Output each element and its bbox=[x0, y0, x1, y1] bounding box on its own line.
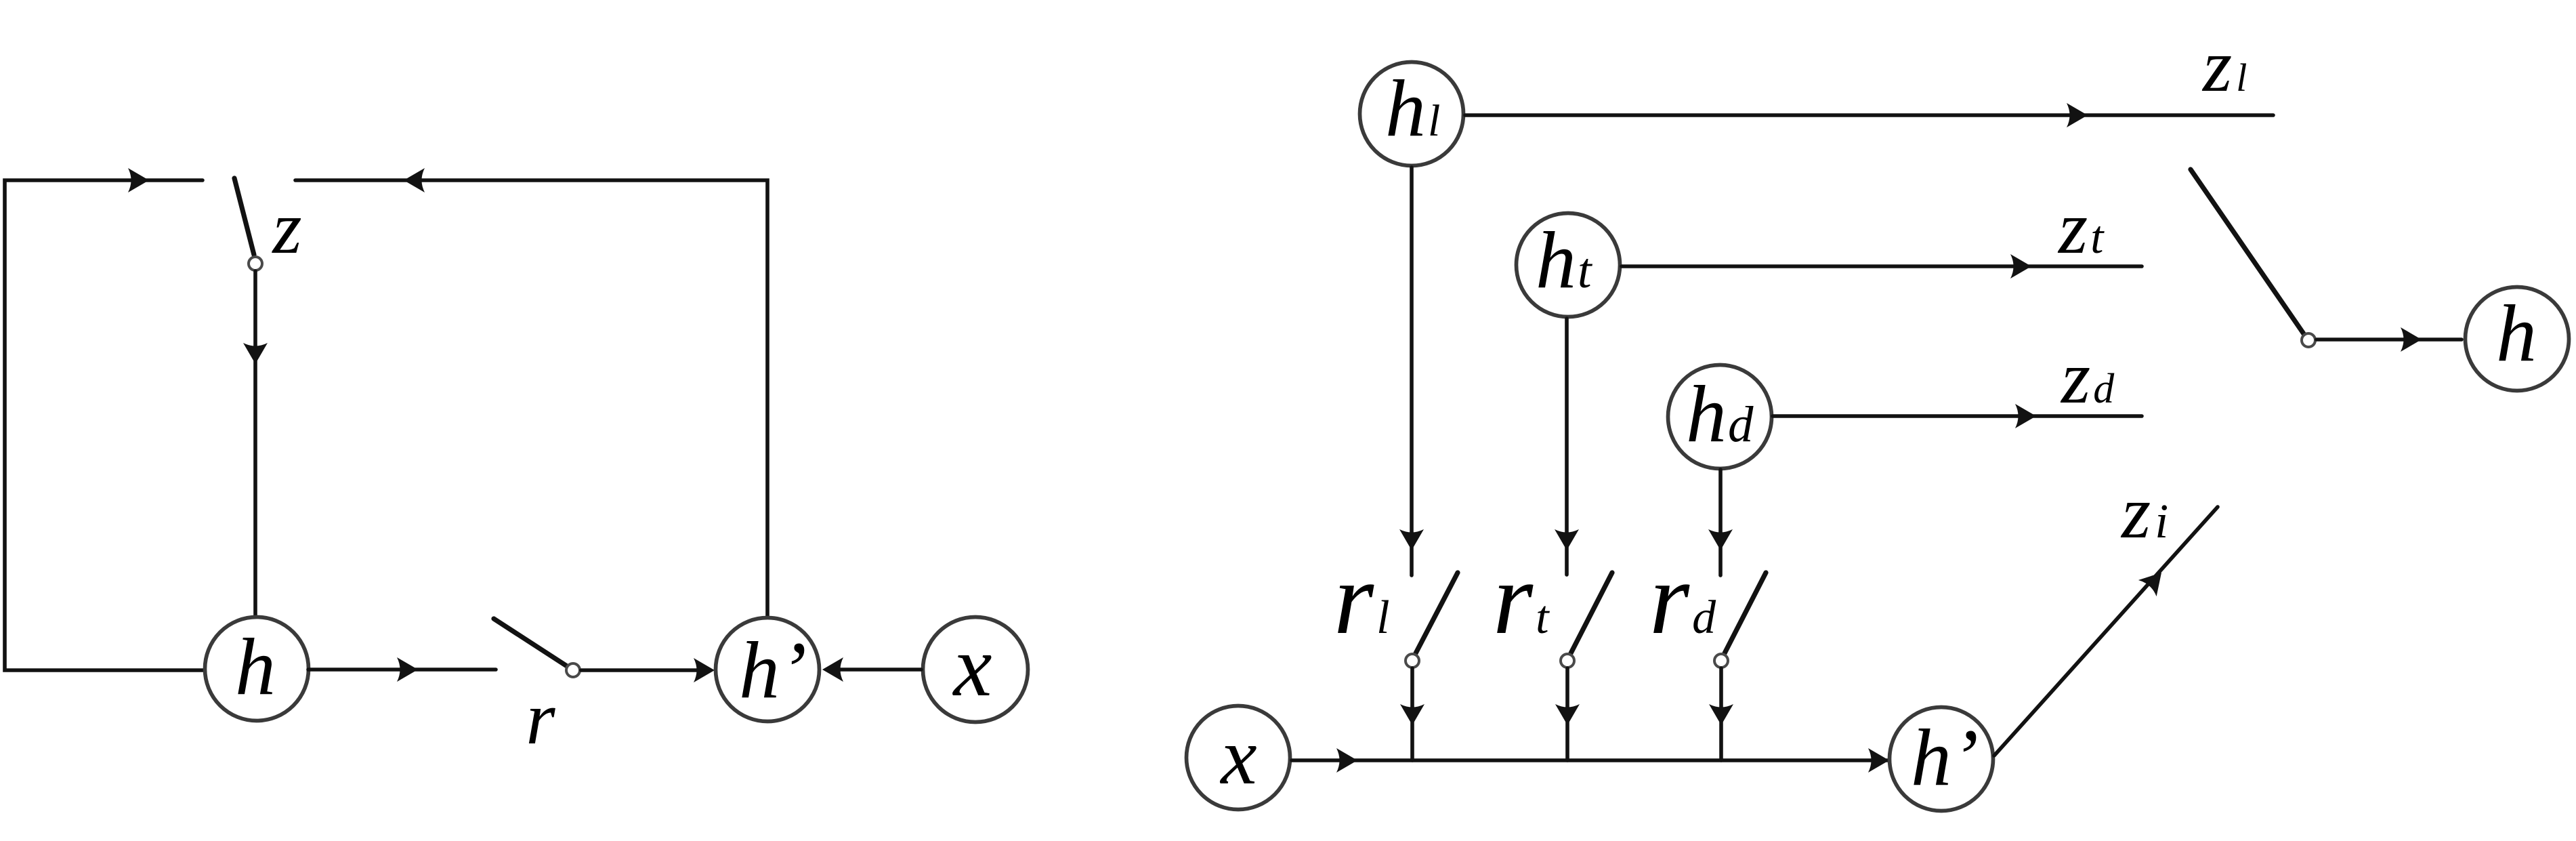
arrowhead z_i bbox=[2138, 565, 2170, 596]
arrowhead z_l bbox=[2067, 103, 2088, 127]
switch h lever right bbox=[2191, 169, 2304, 335]
arrowhead into h' bbox=[694, 658, 715, 682]
arrowhead on top-left wire bbox=[128, 168, 149, 192]
svg-text:h: h bbox=[235, 621, 276, 712]
switch r_d lever bbox=[1725, 573, 1766, 653]
switch r_l pivot bbox=[1406, 654, 1419, 668]
arrowhead r_t down bbox=[1555, 704, 1580, 725]
svg-text:x: x bbox=[1219, 711, 1257, 801]
svg-text:x: x bbox=[952, 618, 992, 714]
switch h pivot right bbox=[2302, 333, 2315, 347]
wire r_l down to bus bbox=[1410, 668, 1414, 760]
wire from h' up and left to switch z bbox=[295, 180, 767, 617]
node h_t bbox=[1517, 213, 1620, 317]
arrowhead leftward on top wire bbox=[404, 168, 425, 192]
arrowhead r_l down bbox=[1400, 704, 1424, 725]
node x left diagram bbox=[923, 617, 1028, 722]
node h right bbox=[2466, 287, 2569, 391]
arrowhead on z output bbox=[243, 343, 268, 364]
arrowhead into h' right bbox=[1868, 748, 1889, 773]
switch r_t lever bbox=[1571, 573, 1612, 653]
switch r lever bbox=[494, 619, 567, 666]
wire bottom bus bbox=[1292, 758, 1887, 762]
wire z output down into h bbox=[253, 271, 257, 617]
wire h output bbox=[308, 668, 496, 672]
arrowhead on h output bbox=[397, 657, 418, 682]
switch r_d pivot bbox=[1714, 654, 1728, 668]
wire r output into h' bbox=[581, 668, 704, 672]
svg-text:h: h bbox=[2496, 288, 2537, 378]
node h' bbox=[716, 618, 820, 722]
switch r_t pivot bbox=[1561, 654, 1574, 668]
node h' right diagram bbox=[1890, 707, 1993, 811]
switch r_l lever bbox=[1416, 573, 1458, 653]
wire x into h' bbox=[833, 668, 921, 672]
wire r_t down to bus bbox=[1565, 668, 1569, 760]
wire h_t down bbox=[1565, 319, 1569, 575]
arrowhead x into h' bbox=[822, 657, 843, 682]
arrowhead after x bbox=[1336, 748, 1357, 773]
svg-text:h’: h’ bbox=[1911, 712, 1979, 802]
node h_l bbox=[1360, 62, 1464, 166]
wire pivot to h bbox=[2317, 337, 2462, 342]
wire z_i diagonal bbox=[1994, 507, 2218, 756]
arrowhead z_t bbox=[2010, 254, 2031, 279]
switch z lever bbox=[234, 178, 254, 255]
switch z pivot bbox=[249, 257, 262, 270]
node h_d bbox=[1668, 365, 1772, 469]
wire z_d bbox=[1773, 414, 2142, 418]
wire r_d down to bus bbox=[1719, 668, 1723, 760]
wire h_l down bbox=[1410, 167, 1414, 575]
arrowhead h_d down bbox=[1708, 529, 1733, 550]
wire z_l bbox=[1465, 113, 2273, 117]
arrowhead z_d bbox=[2015, 404, 2036, 428]
arrowhead h_t down bbox=[1555, 529, 1579, 550]
node h bbox=[205, 617, 309, 721]
arrowhead h_l down bbox=[1399, 529, 1424, 550]
wire z_t bbox=[1622, 264, 2142, 268]
arrowhead into h bbox=[2401, 327, 2422, 352]
svg-text:r: r bbox=[526, 677, 555, 760]
node x right diagram bbox=[1187, 706, 1290, 810]
arrowhead r_d down bbox=[1709, 704, 1733, 725]
wire left feedback loop (top-left, left vertical, bottom into h) bbox=[5, 180, 205, 670]
switch r pivot bbox=[566, 663, 580, 677]
wire h_d down bbox=[1718, 470, 1723, 575]
svg-text:h’: h’ bbox=[739, 625, 807, 715]
svg-text:z: z bbox=[271, 186, 301, 270]
